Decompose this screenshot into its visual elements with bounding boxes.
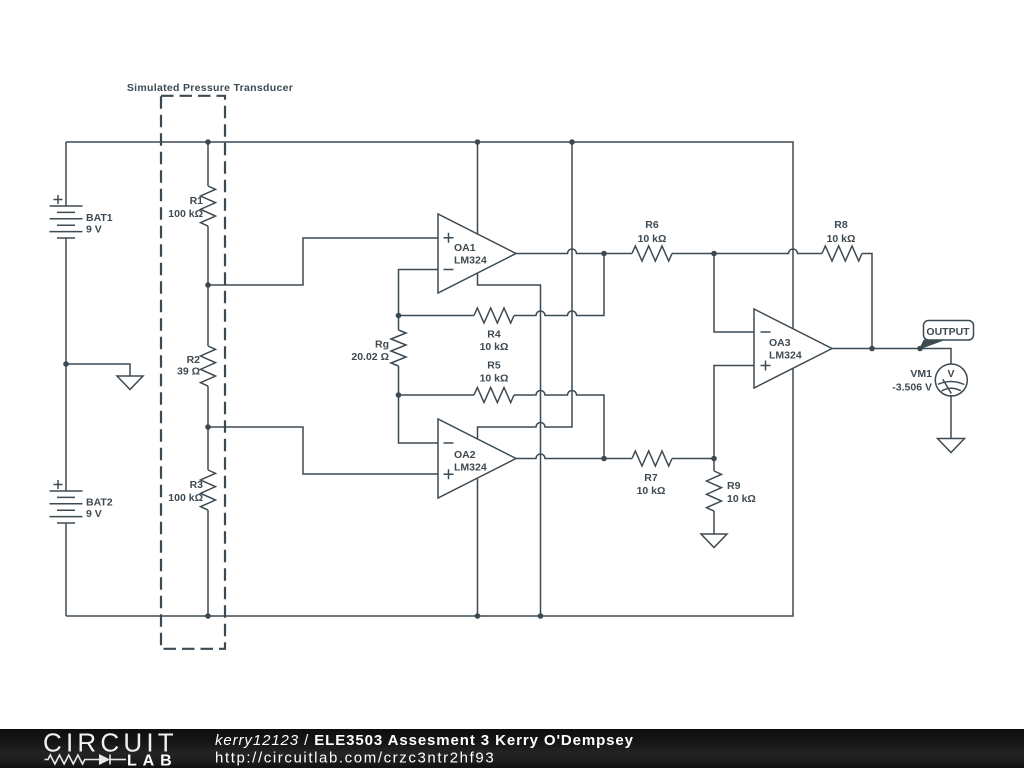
- resistor R1: [201, 186, 216, 226]
- svg-text:-3.506 V: -3.506 V: [892, 382, 932, 394]
- wire VM1 to ground: [950, 395, 952, 439]
- voltmeter VM1: [935, 364, 967, 396]
- resistor R5: [474, 388, 514, 403]
- op-amp OA1 plus pin: [444, 233, 454, 243]
- wire node B to OA1 + input: [208, 238, 438, 285]
- wire OA1 output with hop to R6: [516, 249, 632, 254]
- ground GND2: [701, 534, 727, 548]
- wire OA2 V+ from rail with hop: [478, 142, 573, 439]
- wire Rg bottom lead: [398, 366, 400, 395]
- svg-text:OUTPUT: OUTPUT: [926, 326, 970, 338]
- wire R3 to bottom rail: [207, 510, 209, 616]
- wire node D to OA3 - input: [714, 254, 754, 333]
- op-amp OA2: [438, 419, 516, 498]
- node rail-OA2V+: [569, 139, 575, 145]
- wire R5 left lead from Rg bottom node: [399, 394, 475, 396]
- wire R6 to R8 with hop over OA3 V+: [672, 249, 822, 254]
- svg-text:LM324: LM324: [454, 255, 487, 267]
- wire OA1 V- to bottom rail: [478, 273, 541, 616]
- node bottom rail OA1 V-: [538, 613, 544, 619]
- wire OA2 - input to Rg bottom node: [399, 395, 439, 443]
- resistor R7: [632, 451, 672, 466]
- svg-text:9 V: 9 V: [86, 224, 102, 236]
- svg-text:VM1: VM1: [910, 368, 932, 380]
- wire OA1 - input to Rg top node: [399, 270, 439, 316]
- svg-text:LM324: LM324: [769, 350, 802, 362]
- wire top +9V rail with OA3 V+ drop: [66, 142, 793, 329]
- svg-text:R1: R1: [190, 195, 204, 207]
- node Rg bottom: [396, 392, 402, 398]
- svg-text:OA1: OA1: [454, 242, 476, 254]
- resistor R8: [822, 246, 862, 261]
- svg-text:Simulated Pressure Transducer: Simulated Pressure Transducer: [127, 82, 293, 94]
- wire R8 right down to OA3 output node: [862, 254, 872, 349]
- output flag pointer: [920, 340, 943, 348]
- resistor R9: [707, 471, 722, 511]
- svg-text:10 kΩ: 10 kΩ: [637, 485, 666, 497]
- svg-text:10 kΩ: 10 kΩ: [638, 233, 667, 245]
- svg-text:R7: R7: [644, 472, 658, 484]
- svg-text:OA2: OA2: [454, 449, 476, 461]
- node D OA1 output: [601, 251, 607, 257]
- svg-text:LM324: LM324: [454, 462, 487, 474]
- node B R1-R2: [205, 282, 211, 288]
- svg-text:R8: R8: [834, 219, 848, 231]
- svg-text:http://circuitlab.com/crzc3ntr: http://circuitlab.com/crzc3ntr2hf93: [215, 750, 495, 767]
- svg-text:R9: R9: [727, 480, 741, 492]
- op-amp OA3: [754, 309, 832, 388]
- node C R2-R3: [205, 424, 211, 430]
- wire R1 to R2: [207, 226, 209, 346]
- node Rg top: [396, 313, 402, 319]
- ground GND3: [938, 439, 965, 453]
- wire OA3 output to VM1: [832, 349, 951, 365]
- svg-text:10 kΩ: 10 kΩ: [480, 373, 509, 385]
- node bottom rail OA2 V-: [475, 613, 481, 619]
- node E R7-R9: [711, 456, 717, 462]
- svg-text:R4: R4: [487, 329, 501, 341]
- battery BAT1: [50, 206, 83, 238]
- op-amp OA3 plus pin: [761, 361, 771, 371]
- svg-text:R6: R6: [645, 219, 659, 231]
- svg-text:Rg: Rg: [375, 339, 389, 351]
- wire ground stub from node A: [66, 364, 130, 376]
- svg-text:39 Ω: 39 Ω: [177, 366, 200, 378]
- wire Rg top lead: [398, 316, 400, 331]
- svg-text:V: V: [947, 368, 954, 380]
- wire OA1 V+ from rail: [477, 142, 479, 234]
- wire left rail top: rail to BAT1: [65, 142, 67, 206]
- wire R9 to ground: [713, 511, 715, 534]
- wire rail to R1: [207, 142, 209, 186]
- wire R2 to R3: [207, 386, 209, 470]
- battery BAT2 plus sign: [54, 480, 63, 489]
- resistor R6: [632, 246, 672, 261]
- resistor R3: [201, 470, 216, 510]
- wire node C to OA2 + input: [208, 427, 438, 474]
- battery BAT1 plus sign: [54, 195, 63, 204]
- svg-text:BAT1: BAT1: [86, 212, 113, 224]
- wire bottom -9V rail with OA3 V- rise: [66, 369, 793, 617]
- battery BAT2: [50, 491, 83, 523]
- svg-text:R5: R5: [487, 360, 501, 372]
- node OA3 output R8: [869, 346, 875, 352]
- svg-text:R3: R3: [190, 479, 204, 491]
- svg-text:LAB: LAB: [127, 753, 178, 768]
- node R6-OA3 minus: [711, 251, 717, 257]
- resistor R4: [474, 308, 514, 323]
- wire R7 to node E: [672, 458, 714, 460]
- wire OA2 V- to bottom rail: [477, 479, 479, 616]
- op-amp OA2 plus pin: [444, 469, 454, 479]
- wire node E to OA3 + input: [714, 366, 754, 459]
- node A battery midpoint: [63, 361, 69, 367]
- node OA2 output: [601, 456, 607, 462]
- wire BAT1 to BAT2: [65, 238, 67, 491]
- output flag OUTPUT: [924, 321, 974, 341]
- wire R4 right with hops over V- and V+ verticals: [514, 254, 604, 316]
- svg-text:100 kΩ: 100 kΩ: [168, 492, 203, 504]
- svg-text:R2: R2: [187, 354, 201, 366]
- op-amp OA1: [438, 214, 516, 293]
- wire R4 left lead from Rg top node: [399, 315, 475, 317]
- svg-text:20.02 Ω: 20.02 Ω: [351, 351, 389, 363]
- resistor R2: [201, 346, 216, 386]
- annotation box Simulated Pressure Transducer: [161, 96, 225, 649]
- svg-text:9 V: 9 V: [86, 508, 102, 520]
- node rail-R1: [205, 139, 211, 145]
- svg-text:10 kΩ: 10 kΩ: [727, 493, 756, 505]
- wire OA2 output with hop: [516, 454, 632, 458]
- wire R5 right with hops, down to OA2 output node: [514, 391, 604, 459]
- wire R9 top lead: [713, 459, 715, 472]
- op-amp OA3 minus pin: [761, 331, 771, 333]
- svg-text:100 kΩ: 100 kΩ: [168, 208, 203, 220]
- svg-text:kerry12123 / ELE3503 Assesment: kerry12123 / ELE3503 Assesment 3 Kerry O…: [215, 732, 634, 749]
- ground GND1: [117, 376, 143, 390]
- svg-text:OA3: OA3: [769, 337, 791, 349]
- svg-text:BAT2: BAT2: [86, 497, 113, 509]
- node rail-OA1V+: [475, 139, 481, 145]
- node OUTPUT tap: [917, 346, 923, 352]
- svg-text:10 kΩ: 10 kΩ: [827, 233, 856, 245]
- op-amp OA1 minus pin: [444, 269, 454, 271]
- node bottom rail R3: [205, 613, 211, 619]
- svg-text:10 kΩ: 10 kΩ: [480, 341, 509, 353]
- wire BAT2 to bottom rail: [65, 523, 67, 616]
- op-amp OA2 minus pin: [444, 442, 454, 444]
- resistor Rg: [391, 330, 406, 366]
